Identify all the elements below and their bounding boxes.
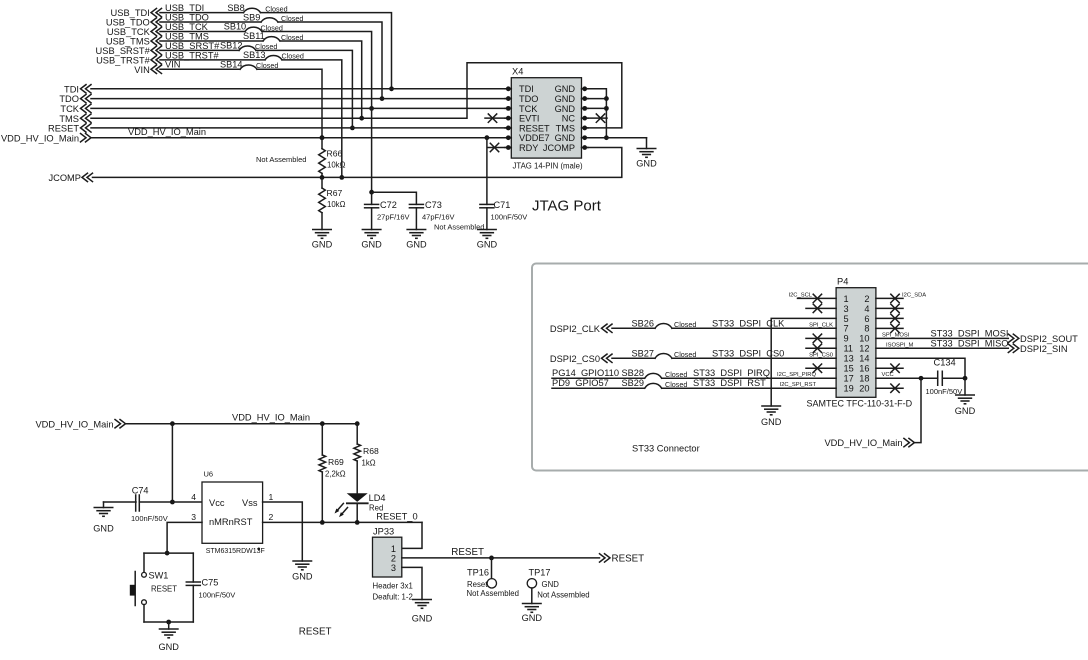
svg-text:RESET: RESET (451, 547, 484, 558)
capacitor C134 100nF/50V (926, 357, 966, 396)
svg-text:C72: C72 (380, 200, 397, 210)
svg-text:TCK: TCK (60, 104, 79, 114)
port VDD_HV_IO_Main (reset section) (35, 419, 125, 429)
svg-text:RESET: RESET (48, 124, 79, 134)
svg-text:14: 14 (859, 354, 869, 364)
text Not Assembled (R66) (256, 155, 306, 164)
wire C74 node to U6 pin4 (172, 501, 202, 503)
wire USB_SRST# to SB12 (160, 49, 239, 51)
svg-text:DSPI2_SIN: DSPI2_SIN (1020, 344, 1068, 354)
port RESET (48, 124, 91, 134)
svg-text:R66: R66 (327, 149, 343, 159)
junction (604, 106, 609, 111)
port USB_TMS (106, 37, 162, 47)
ground under C72 (361, 230, 382, 250)
svg-text:2: 2 (269, 512, 274, 522)
svg-text:GND: GND (412, 614, 433, 624)
port TMS (59, 114, 91, 124)
wire SB11 to vertical drop (280, 41, 362, 118)
svg-text:JCOMP: JCOMP (48, 173, 81, 183)
svg-text:JTAG Port: JTAG Port (532, 198, 602, 215)
port USB_TCK (107, 27, 162, 37)
svg-text:R69: R69 (328, 457, 344, 467)
port TCK (60, 104, 91, 114)
no-connect X EVTI (485, 114, 505, 122)
svg-text:VIN: VIN (134, 65, 150, 75)
svg-text:SB28: SB28 (622, 368, 644, 378)
svg-text:15: 15 (844, 364, 854, 374)
test point TP16 Reset (Not Assembled) (467, 558, 519, 598)
pin 18 VCC wire (876, 372, 938, 378)
svg-text:11: 11 (844, 344, 854, 354)
svg-text:20: 20 (859, 384, 869, 394)
wire DSPI2_CLK to SB26 (612, 327, 655, 329)
text JTAG Port (532, 198, 602, 215)
svg-text:1: 1 (844, 294, 849, 304)
wire switch top rail (144, 552, 193, 554)
ground under TP17 (522, 604, 543, 623)
svg-text:Header 3x1: Header 3x1 (373, 582, 413, 591)
svg-text:U6: U6 (204, 470, 214, 479)
svg-text:DSPI2_CLK: DSPI2_CLK (550, 324, 601, 334)
svg-text:5: 5 (844, 314, 849, 324)
svg-text:SB11: SB11 (243, 31, 265, 41)
svg-text:ST33_DSPI_PIRQ: ST33_DSPI_PIRQ (693, 368, 770, 378)
junction (604, 96, 609, 101)
svg-text:1kΩ: 1kΩ (362, 459, 376, 468)
junction (380, 96, 385, 101)
junction (604, 135, 609, 140)
LED LD4 Red (335, 493, 386, 523)
svg-text:GND: GND (158, 642, 179, 652)
pin 14 wire to C134 right node (876, 358, 965, 378)
net label VIN (165, 60, 181, 70)
ground right of X4 (636, 138, 657, 169)
svg-text:SPI_CS0: SPI_CS0 (809, 352, 833, 358)
wire SB8 to vertical drop (261, 13, 392, 89)
svg-text:Not Assembled: Not Assembled (537, 590, 589, 599)
svg-text:SPI_MOSI: SPI_MOSI (882, 332, 910, 338)
svg-text:SB13: SB13 (243, 50, 265, 60)
wire JP33 pin2 RESET net (402, 557, 600, 559)
svg-text:100nF/50V: 100nF/50V (199, 591, 236, 600)
junction (320, 421, 325, 426)
junction VDDE7/C71 (485, 135, 490, 140)
wire JP33 pin3 to ground (402, 567, 422, 599)
svg-text:VDD_HV_IO_Main: VDD_HV_IO_Main (35, 419, 113, 429)
wire VIN to SB14 (160, 68, 240, 70)
svg-text:100nF/50V: 100nF/50V (131, 514, 168, 523)
ground under C134 (955, 378, 976, 416)
svg-text:I2C_SDA: I2C_SDA (902, 292, 926, 298)
svg-text:GND: GND (955, 406, 976, 416)
wire SB14 to vertical drop (257, 69, 322, 137)
svg-text:4: 4 (191, 492, 196, 502)
svg-text:TP16: TP16 (467, 568, 489, 578)
svg-text:GND: GND (292, 572, 313, 582)
net label USB_SRST# (165, 41, 220, 51)
solder bridge SB27 (Closed) (632, 348, 697, 359)
wire SB13 to vertical drop (282, 60, 342, 178)
svg-text:LD4: LD4 (369, 493, 386, 503)
svg-text:GND: GND (522, 613, 543, 623)
svg-text:C73: C73 (425, 200, 442, 210)
svg-text:VDD_HV_IO_Main: VDD_HV_IO_Main (1, 133, 79, 143)
port RESET (output) (600, 554, 645, 565)
svg-text:ST33_DSPI_CLK: ST33_DSPI_CLK (712, 318, 785, 328)
pin 8 no-connect (876, 324, 903, 332)
net label PD9_GPIO57 / wire to SB29 (552, 378, 645, 388)
junction (355, 520, 360, 525)
solder bridge SB14 (Closed) (220, 60, 278, 71)
wire switch bottom rail (144, 621, 193, 623)
net label ST33_DSPI_CLK / wire to pin7 (672, 318, 836, 328)
svg-text:10: 10 (859, 334, 869, 344)
port VIN (134, 65, 161, 75)
svg-text:ST33 Connector: ST33 Connector (632, 444, 700, 454)
svg-text:R68: R68 (363, 446, 379, 456)
pushbutton SW1 RESET (130, 553, 177, 622)
svg-text:VDD_HV_IO_Main: VDD_HV_IO_Main (232, 413, 310, 423)
junction C72/C73 (369, 190, 374, 195)
svg-text:C134: C134 (934, 357, 956, 367)
wire USB_TDO to SB9 (160, 21, 261, 23)
svg-text:SPI_CLK: SPI_CLK (809, 322, 833, 328)
svg-text:JP33: JP33 (373, 527, 394, 537)
junction VCC node (919, 376, 924, 381)
svg-text:17: 17 (844, 374, 854, 384)
wire branch to C73 (372, 192, 417, 204)
svg-text:4: 4 (864, 304, 869, 314)
svg-text:TMS: TMS (59, 114, 79, 124)
wire RESET_0 to JP33 pin1 (402, 522, 422, 548)
svg-text:3: 3 (844, 304, 849, 314)
svg-text:EVTI: EVTI (519, 114, 539, 124)
svg-text:ST33_DSPI_MISO: ST33_DSPI_MISO (931, 338, 1009, 348)
svg-text:JTAG 14-PIN (male): JTAG 14-PIN (male) (513, 161, 583, 170)
svg-text:Not Assembled: Not Assembled (256, 155, 306, 164)
svg-text:R67: R67 (327, 188, 343, 198)
svg-text:GND: GND (636, 158, 657, 168)
capacitor C74 100nF/50V (131, 485, 172, 523)
port TDO (59, 94, 91, 104)
svg-text:SAMTEC TFC-110-31-F-D: SAMTEC TFC-110-31-F-D (807, 399, 913, 409)
svg-text:GND: GND (406, 240, 427, 250)
wire SB10 to vertical drop (262, 32, 372, 109)
pin 20 no-connect (876, 384, 903, 392)
IC U6 STM6315RDW13F (191, 470, 273, 556)
svg-text:RESET: RESET (519, 123, 550, 133)
resistor R69 2,2k (319, 424, 346, 523)
port USB_TDI (111, 8, 162, 18)
pin 9 no-connect (806, 334, 836, 342)
svg-text:18: 18 (859, 374, 869, 384)
svg-text:RDY: RDY (519, 143, 538, 153)
pin 6 no-connect (876, 314, 903, 322)
wire X4 GND pins 1-3 bus (587, 89, 607, 138)
svg-text:19: 19 (844, 384, 854, 394)
svg-text:TDO: TDO (59, 94, 79, 104)
svg-text:JCOMP: JCOMP (543, 143, 575, 153)
text ST33 Connector (632, 444, 700, 454)
svg-text:GND: GND (555, 94, 576, 104)
svg-text:100nF/50V: 100nF/50V (491, 212, 528, 221)
svg-text:16: 16 (859, 364, 869, 374)
net label ST33_DSPI_CS0 / wire to pin13 (672, 348, 836, 358)
svg-text:6: 6 (864, 314, 869, 324)
svg-text:C75: C75 (202, 578, 219, 588)
wire U6 pin1 to ground (263, 502, 303, 561)
no-connect X RDY (488, 143, 505, 151)
junction (166, 620, 171, 625)
pin 16 no-connect (876, 364, 903, 372)
svg-text:3: 3 (191, 512, 196, 522)
pin 5 wire to ground (771, 318, 836, 406)
net label VDD_HV_IO_Main (232, 413, 310, 423)
svg-text:VCC: VCC (882, 372, 894, 378)
svg-text:nMRnRST: nMRnRST (209, 517, 253, 527)
solder bridge SB8 (Closed) (227, 3, 287, 14)
svg-text:10kΩ: 10kΩ (327, 200, 346, 209)
wire USB_TCK to SB10 (160, 31, 245, 33)
capacitor C72 27pF/16V (365, 192, 410, 229)
capacitor C75 100nF/50V (186, 553, 235, 622)
wire SB9 to vertical drop (278, 22, 382, 99)
port USB_TRST# (96, 55, 161, 65)
pin 10 wire ST33_DSPI_MOSI (876, 328, 1009, 338)
net label PG14_GPIO110 / wire to SB28 (552, 368, 645, 378)
svg-text:P4: P4 (837, 277, 848, 287)
svg-text:C74: C74 (132, 485, 149, 495)
port VDD_HV_IO_Main (1, 133, 91, 143)
port TDI (64, 84, 91, 94)
wire TMS row with loop over X4 (91, 63, 622, 128)
ground left of C74 (93, 502, 136, 534)
svg-text:Not Assembled: Not Assembled (434, 223, 484, 232)
test point TP17 GND (Not Assembled) (527, 568, 589, 604)
wire USB_TDI to SB8 (160, 12, 244, 14)
svg-text:STM6315RDW13F: STM6315RDW13F (206, 548, 265, 555)
wire VDD to VCC node (914, 378, 921, 442)
svg-text:GND: GND (555, 104, 576, 114)
wire VDD rail (126, 423, 357, 425)
port JCOMP (48, 173, 92, 183)
net label USB_TCK (165, 22, 209, 32)
text RESET section title (299, 627, 332, 638)
ground under U6 pin1 (292, 561, 313, 582)
svg-text:TMS: TMS (556, 123, 575, 133)
solder bridge SB29 (Closed) (622, 378, 688, 389)
resistor R66 10k (Not Assembled) (319, 138, 346, 178)
port USB_TDO (106, 18, 162, 28)
wire TDO row (91, 98, 508, 100)
svg-text:27pF/16V: 27pF/16V (377, 212, 410, 221)
svg-text:DSPI2_SOUT: DSPI2_SOUT (1020, 334, 1078, 344)
wire TDI row (91, 88, 508, 90)
net label RESET (451, 547, 484, 558)
svg-text:TDI: TDI (64, 84, 79, 94)
wire USB_TRST# to SB13 (160, 59, 265, 61)
svg-text:Reset: Reset (467, 580, 488, 589)
net label USB_TRST# (165, 50, 220, 60)
wire VDD down to C74/U6 (171, 424, 173, 502)
solder bridge SB10 (Closed) (224, 22, 283, 33)
junction (339, 175, 344, 180)
junction (320, 135, 325, 140)
wire RESET row (91, 127, 508, 129)
svg-text:ST33_DSPI_RST: ST33_DSPI_RST (693, 378, 766, 388)
connector X4 JTAG 14-PIN (male) (505, 67, 588, 171)
svg-text:SB29: SB29 (622, 378, 644, 388)
ground under JP33 (412, 600, 433, 624)
wire JCOMP row with loop to X4 (93, 148, 622, 178)
svg-text:47pF/16V: 47pF/16V (422, 212, 455, 221)
svg-text:GND: GND (477, 240, 498, 250)
junction (963, 376, 968, 381)
junction (170, 500, 175, 505)
svg-text:2: 2 (391, 554, 396, 564)
svg-text:GND: GND (555, 133, 576, 143)
svg-text:VIN: VIN (165, 60, 181, 70)
svg-text:SB27: SB27 (632, 348, 654, 358)
ground under C71 (477, 230, 498, 250)
svg-text:1: 1 (391, 544, 396, 554)
svg-text:TP17: TP17 (529, 568, 551, 578)
junction (489, 556, 494, 561)
frame ST33 Connector section (532, 264, 1088, 471)
ground under pin5 (761, 406, 782, 427)
wire SB12 to vertical drop (256, 50, 352, 128)
solder bridge SB26 (Closed) (632, 318, 697, 329)
junction (320, 520, 325, 525)
svg-text:7: 7 (844, 324, 849, 334)
capacitor C73 47pF/16V (Not Assembled) (409, 200, 484, 232)
svg-text:GND: GND (93, 524, 114, 534)
wire VDD_HV_IO_Main row (91, 137, 508, 139)
svg-text:8: 8 (864, 324, 869, 334)
svg-text:VDDE7: VDDE7 (519, 133, 550, 143)
capacitor C71 100nF/50V (480, 138, 527, 230)
pin 1 I2C_SCL no-connect (788, 292, 836, 302)
solder bridge SB13 (Closed) (243, 50, 304, 61)
svg-text:GND: GND (361, 240, 382, 250)
net label VDD_HV_IO_Main (128, 127, 206, 137)
solder bridge SB28 (Closed) (622, 368, 688, 379)
net label ST33_DSPI_RST / wire to pin19 (662, 378, 836, 388)
svg-text:Vcc: Vcc (209, 498, 225, 508)
pin 12 wire ST33_DSPI_MISO (876, 338, 1009, 348)
wire TCK row (91, 107, 508, 109)
svg-text:9: 9 (844, 334, 849, 344)
solder bridge SB11 (Closed) (243, 31, 303, 42)
pin 2 I2C_SDA no-connect (876, 292, 926, 302)
junction (389, 86, 394, 91)
svg-text:VDD_HV_IO_Main: VDD_HV_IO_Main (128, 127, 206, 137)
svg-text:RESET_0: RESET_0 (376, 511, 417, 521)
svg-text:13: 13 (844, 354, 854, 364)
svg-text:C71: C71 (494, 200, 511, 210)
resistor R68 1k (354, 421, 379, 492)
connector P4 SAMTEC TFC-110-31-F-D (807, 277, 913, 409)
port DSPI2_CS0 (550, 354, 612, 364)
pin 4 no-connect (876, 304, 903, 312)
wire X4 GND pin row6 to ground (587, 137, 647, 139)
net label ST33_DSPI_PIRQ / wire to pin17 (662, 368, 836, 378)
svg-text:GND: GND (555, 84, 576, 94)
svg-text:DSPI2_CS0: DSPI2_CS0 (550, 354, 600, 364)
svg-text:NC: NC (562, 114, 576, 124)
solder bridge SB12 (Closed) (220, 41, 277, 52)
svg-text:I2C_SPI_RST: I2C_SPI_RST (780, 382, 817, 388)
solder bridge SB9 (Closed) (243, 12, 303, 23)
net label USB_TDO (165, 12, 209, 22)
header JP33 3x1 (373, 527, 413, 602)
svg-text:Not Assembled: Not Assembled (467, 589, 519, 598)
svg-text:ST33_DSPI_CS0: ST33_DSPI_CS0 (712, 348, 784, 358)
svg-text:TDO: TDO (519, 94, 538, 104)
svg-text:TCK: TCK (519, 104, 538, 114)
junction (359, 116, 364, 121)
svg-text:3: 3 (391, 563, 396, 573)
svg-text:1: 1 (269, 492, 274, 502)
svg-text:PD9_GPIO57: PD9_GPIO57 (552, 378, 609, 388)
wire U6 pin2 RESET_0 (263, 521, 422, 523)
svg-text:Vss: Vss (242, 498, 258, 508)
svg-text:SB14: SB14 (220, 60, 242, 70)
svg-text:RESET: RESET (612, 554, 645, 565)
port VDD_HV_IO_Main (frame) (824, 438, 914, 448)
svg-text:PG14_GPIO110: PG14_GPIO110 (552, 368, 619, 378)
junction (350, 126, 355, 131)
junction (369, 106, 374, 111)
svg-text:GND: GND (312, 240, 333, 250)
port DSPI2_SOUT (1008, 334, 1078, 344)
svg-text:ISOSPI_M: ISOSPI_M (886, 342, 914, 348)
pin 11 no-connect (806, 344, 836, 352)
svg-text:I2C_SPI_PIRQ: I2C_SPI_PIRQ (777, 372, 816, 378)
svg-text:10kΩ: 10kΩ (327, 161, 346, 170)
wire TCK branch down to C72/C73 (371, 108, 373, 192)
ground under R67 (312, 230, 333, 250)
port DSPI2_CLK (550, 324, 612, 334)
port DSPI2_SIN (1008, 344, 1067, 354)
net label RESET_0 (376, 511, 417, 521)
junction R66/R67/JCOMP (320, 175, 325, 180)
junction VIN-VDD (320, 135, 325, 140)
ground under C73 (406, 230, 427, 250)
svg-text:TDI: TDI (519, 84, 534, 94)
no-connect X NC (588, 114, 607, 122)
svg-text:X4: X4 (512, 67, 523, 77)
svg-text:12: 12 (859, 344, 869, 354)
pin 3 no-connect (806, 304, 836, 312)
resistor R67 10k (319, 177, 346, 229)
svg-text:I2C_SCL: I2C_SCL (788, 292, 812, 298)
junction (165, 551, 170, 556)
svg-text:2: 2 (864, 294, 869, 304)
wire DSPI2_CS0 to SB27 (612, 357, 655, 359)
port USB_SRST# (96, 46, 162, 56)
wire U6 pin3 to switch rail (167, 522, 202, 553)
net label USB_TMS (165, 31, 209, 41)
wire USB_TMS to SB11 (160, 40, 263, 42)
svg-text:Deafult: 1-2: Deafult: 1-2 (373, 593, 413, 602)
svg-text:RESET: RESET (151, 585, 177, 594)
svg-text:VDD_HV_IO_Main: VDD_HV_IO_Main (824, 438, 902, 448)
junction (170, 421, 175, 426)
svg-text:GND: GND (542, 580, 560, 589)
svg-text:SB26: SB26 (632, 318, 654, 328)
